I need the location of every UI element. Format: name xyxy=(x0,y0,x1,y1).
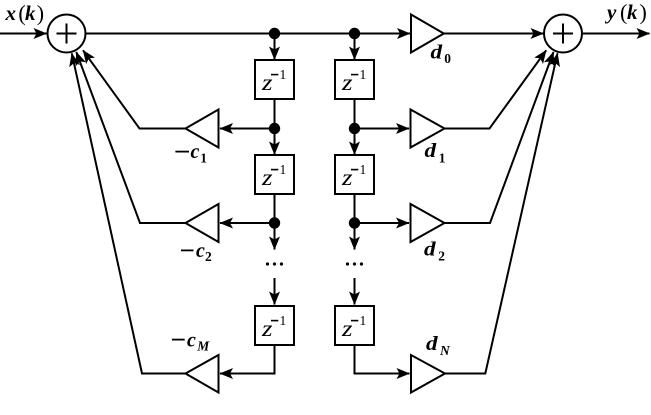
svg-text:z: z xyxy=(261,70,273,95)
svg-text:1: 1 xyxy=(360,162,367,177)
ellipsis left xyxy=(266,262,283,265)
svg-text:N: N xyxy=(439,343,451,358)
wire dN feedforward xyxy=(445,53,558,373)
wire node to amp d2 xyxy=(355,222,410,224)
amplifier c2 xyxy=(186,204,219,242)
node right row1 xyxy=(350,124,359,133)
delay z-1 L2 xyxy=(255,155,294,194)
wire node down left xyxy=(274,223,276,250)
delay z-1 R3 xyxy=(335,306,374,345)
wire R1 to node xyxy=(354,99,356,129)
delay z-1 L3 xyxy=(255,306,294,345)
wire R2 to node xyxy=(354,194,356,223)
delay z-1 L1 xyxy=(255,60,294,99)
node right bus xyxy=(350,29,359,38)
svg-text:z: z xyxy=(261,316,273,341)
wire L3 to amp cM xyxy=(220,345,275,374)
wire node to delay R2 xyxy=(354,129,356,155)
svg-text:d: d xyxy=(426,333,439,355)
svg-text:d: d xyxy=(431,42,444,64)
amplifier d1 xyxy=(411,110,445,148)
svg-text:M: M xyxy=(196,339,210,354)
wire top bus xyxy=(86,33,411,35)
wire output y(k) xyxy=(582,33,650,35)
wire L2 to node xyxy=(274,194,276,223)
wire input x(k) xyxy=(0,33,47,35)
svg-text:c: c xyxy=(187,329,196,351)
wire R3 to amp dN xyxy=(355,345,410,374)
wire d0 to right sum xyxy=(444,33,544,35)
label -cM xyxy=(172,339,185,341)
delay z-1 R1 xyxy=(335,60,374,99)
wire c2 feedback xyxy=(76,52,185,223)
ellipsis right xyxy=(346,262,363,265)
svg-text:1: 1 xyxy=(360,313,367,328)
svg-text:1: 1 xyxy=(200,150,207,165)
wire d1 feedforward xyxy=(445,50,547,128)
svg-text:c: c xyxy=(196,240,205,262)
wire c1 feedback xyxy=(83,50,186,128)
node left row2 xyxy=(270,218,279,227)
wire node to amp c2 xyxy=(220,222,275,224)
svg-text:1: 1 xyxy=(280,313,287,328)
svg-text:d: d xyxy=(425,140,438,162)
svg-text:2: 2 xyxy=(205,249,212,264)
amplifier dN xyxy=(411,355,445,393)
svg-text:1: 1 xyxy=(280,67,287,82)
summing junction right xyxy=(544,15,582,53)
amplifier d2 xyxy=(411,204,445,242)
svg-text:z: z xyxy=(261,165,273,190)
svg-text:z: z xyxy=(341,165,353,190)
amplifier c1 xyxy=(186,110,219,148)
node right row2 xyxy=(350,218,359,227)
wire to delay L3 xyxy=(274,278,276,305)
svg-text:z: z xyxy=(341,70,353,95)
svg-text:z: z xyxy=(341,316,353,341)
svg-text:0: 0 xyxy=(444,51,451,66)
wire to delay R3 xyxy=(354,278,356,305)
delay z-1 R2 xyxy=(335,155,374,194)
label -c2 xyxy=(181,250,194,252)
svg-text:c: c xyxy=(191,141,200,163)
label -c1 xyxy=(175,151,189,153)
wire L1 to node xyxy=(274,99,276,129)
amplifier d0 xyxy=(411,15,444,53)
svg-text:1: 1 xyxy=(280,162,287,177)
summing junction left xyxy=(48,15,86,53)
wire d2 feedforward xyxy=(445,52,554,223)
amplifier cM xyxy=(186,355,219,393)
wire node to delay R1 xyxy=(354,34,356,60)
wire node to amp c1 xyxy=(220,128,275,130)
svg-text:d: d xyxy=(424,239,437,261)
svg-text:1: 1 xyxy=(439,150,446,165)
svg-text:2: 2 xyxy=(438,248,445,263)
wire cM feedback xyxy=(72,53,186,373)
wire node to delay L2 xyxy=(274,129,276,155)
svg-text:1: 1 xyxy=(360,67,367,82)
wire node to amp d1 xyxy=(355,128,410,130)
node left bus xyxy=(270,29,279,38)
node left row1 xyxy=(270,124,279,133)
wire node down right xyxy=(354,223,356,250)
wire node to delay L1 xyxy=(274,34,276,60)
